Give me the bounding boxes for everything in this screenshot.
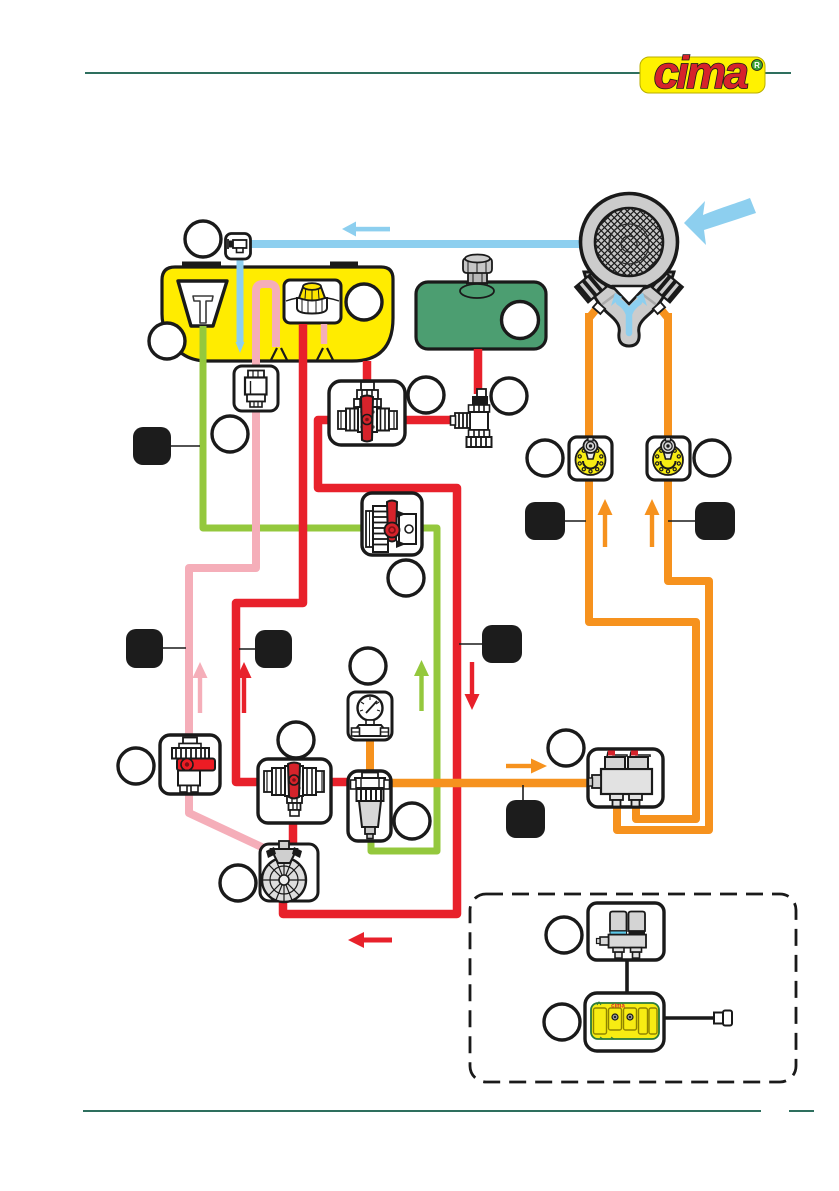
tank strap tab left (182, 262, 221, 268)
green flow arrow up (414, 660, 429, 711)
electro valve unit E1 (588, 903, 664, 960)
orange flow arrow up right (645, 499, 660, 547)
wire: blue drop B2 into tank (237, 256, 244, 342)
main three-way valve V1 (329, 381, 405, 445)
callout circle 4 (212, 416, 248, 452)
wire: red line R5 spare tank to tee filter (474, 349, 483, 394)
svg-text:R: R (754, 61, 760, 70)
callout circle 3 (149, 323, 185, 359)
centrifugal pump PU1 (260, 844, 318, 902)
wire: red line R1 regulator to pump suction valve (236, 324, 303, 782)
callout circle 6 (491, 378, 527, 414)
svg-text:cima: cima (611, 1004, 625, 1010)
label line to red R3 (459, 643, 484, 645)
wire: green line G2 valve to filter bottom (371, 528, 437, 851)
control panel unit E2 (585, 993, 664, 1051)
callout circle 12 (118, 748, 154, 784)
label line to orange O1 (563, 520, 586, 522)
wire: orange line O1 distributor to left nozzle (589, 313, 696, 819)
callout circle 7 (527, 440, 563, 476)
wire: green suction line G1 funnel to agitation valve (203, 326, 362, 528)
label square L7 (506, 800, 545, 838)
svg-text:cima: cima (654, 47, 748, 98)
remote control dashed enclosure (470, 894, 796, 1082)
wire: red link R8 pump valve to pump (289, 822, 298, 846)
pressure gauge M1 (348, 692, 392, 740)
label square L2 (126, 629, 163, 668)
label square L3 (255, 630, 292, 668)
pink agitation return stub P2 (321, 324, 328, 344)
blue intake curved arrow (684, 198, 756, 245)
wire: blue line B1 hand-wash tap to fan (249, 240, 586, 248)
fan atomizer head F1 (575, 194, 683, 347)
wire: red link R7 pump valve to filter (330, 778, 350, 787)
agitation ball valve V2 (362, 493, 422, 555)
spray tick marks under P1 (271, 348, 287, 360)
cima logo (640, 47, 765, 98)
pump suction three-way valve V3 (258, 759, 331, 823)
spare tank T2 (green) (416, 282, 546, 349)
red flow arrow left (bottom) (348, 932, 392, 948)
hand-wash tap box U1 (226, 234, 251, 260)
basket strainer funnel in tank (178, 281, 227, 326)
pressure filter F3 (348, 771, 391, 841)
pressure regulator unit U2 in tank (yellow knob) (284, 280, 341, 323)
label square L1 (133, 427, 171, 465)
label line to orange O4 (522, 785, 524, 802)
label line to green pipe (171, 445, 200, 447)
blue straight arrow over B1 (342, 222, 390, 237)
wire: pink suction U-tube P1 tank to pump inlet (189, 284, 283, 857)
orange stub to left fan nozzle (589, 307, 598, 318)
orange stub to right fan nozzle (659, 307, 668, 318)
callout circle 11 (278, 722, 314, 758)
label line to red pipe R1 (239, 648, 258, 650)
callout circle 16 (546, 917, 582, 953)
blue drop arrowhead (236, 342, 245, 353)
spray tick marks under P2 (317, 348, 333, 360)
orange flow arrow up left (598, 499, 613, 547)
label line to orange O2 (668, 520, 697, 522)
drain ball valve V4 (horizontal handle) (160, 735, 220, 794)
wire: red return line R3 main valve to pump (283, 420, 457, 914)
footer rule short (789, 1110, 814, 1112)
label line to pink pipe (160, 647, 186, 649)
callout circle 10 (350, 648, 386, 684)
electro-valve to control cable (625, 958, 629, 995)
callout circle 14 (220, 865, 256, 901)
wire: orange line O3 gauge to filter head (366, 738, 374, 774)
red flow arrow down (465, 662, 480, 710)
pump inlet check fitting (266, 841, 302, 863)
wire: orange line O2 distributor to right nozzle (617, 313, 709, 830)
pink flow arrow up (193, 662, 208, 713)
hose coupling box U3 below tank (234, 366, 278, 411)
nozzle unit N1 (left) (569, 437, 612, 480)
label square L4 (525, 502, 565, 540)
callout circle 9 (388, 560, 424, 596)
callout circle 2 (346, 284, 382, 320)
nozzle unit N2 (right) (647, 437, 690, 480)
label square L5 (695, 502, 735, 540)
tee line filter F2 (451, 389, 492, 447)
wire: red line R2 tank to main valve (363, 361, 372, 382)
main tank T1 (yellow) (162, 267, 393, 361)
callout circle 5 (408, 377, 444, 413)
wire: orange line O4 filter to distributor (390, 779, 589, 788)
header rule (85, 72, 791, 74)
callout circle 1 (185, 221, 221, 257)
spare tank cap (grey) (463, 255, 492, 284)
red flow arrow up (237, 662, 252, 713)
orange flow arrow right (506, 759, 547, 774)
callout circle 13 (394, 803, 430, 839)
callout circle 15 (548, 730, 584, 766)
tank strap tab right (330, 262, 358, 268)
callout circle 17 (544, 1004, 580, 1040)
wire: red line R4 main valve to tee filter (404, 416, 452, 425)
callout circle 8 (694, 440, 730, 476)
control cable with connector (664, 1011, 732, 1026)
footer rule (83, 1110, 761, 1112)
label square L6 (482, 625, 522, 663)
section distributor valve D1 (manual levers) (588, 749, 663, 807)
